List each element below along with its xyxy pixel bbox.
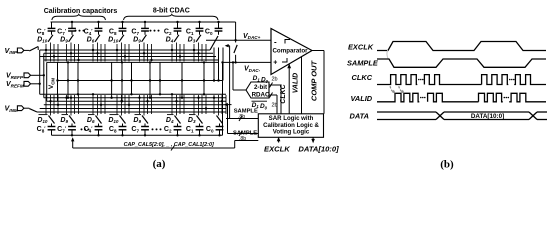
svg-text:(b): (b) <box>440 159 454 171</box>
capacitor C8' (top array) <box>37 22 56 36</box>
svg-text:2b: 2b <box>272 76 278 82</box>
ref-select ticks under C7' (top) <box>67 43 80 62</box>
capacitor C7' (top array) <box>57 22 76 36</box>
svg-text:DATA[10:0]: DATA[10:0] <box>298 144 339 153</box>
capacitor C0 (top array) <box>205 22 223 36</box>
dots between C7 and C2 (top) <box>150 30 152 32</box>
ref-select ticks above C8 (bottom) <box>117 95 130 116</box>
wire: mid vertical links <box>68 48 223 102</box>
arrows: CLKC to VALID (gray dashed) <box>390 86 404 93</box>
ref-select ticks above C0 (bottom) <box>213 95 226 116</box>
svg-text:,8b: ,8b <box>238 114 245 120</box>
svg-text:Comparator: Comparator <box>272 47 308 54</box>
svg-text:VALID: VALID <box>292 73 299 93</box>
wire: VREFP vertical rail <box>43 53 45 97</box>
capacitor C8' (bottom array) <box>37 124 56 136</box>
wire CLKC <box>288 64 290 114</box>
svg-text:VALID: VALID <box>351 94 373 103</box>
faint clock-crossing mark <box>387 50 388 59</box>
capacitor C2 (top array) <box>164 22 182 36</box>
switch D9 for C7' (top) <box>60 35 73 44</box>
switch D9 for C7 (top) <box>133 35 146 44</box>
svg-text:SAMPLE: SAMPLE <box>347 59 379 68</box>
switch D6 for C4' (top) <box>87 35 100 44</box>
svg-text:RDAC: RDAC <box>252 91 270 98</box>
wire VDAC- <box>223 61 272 63</box>
capacitor C8 (top array) <box>109 22 127 36</box>
junction dots on grid <box>67 61 220 102</box>
capacitor C7 (bottom array) <box>131 124 149 136</box>
ref-select ticks under C7 (top) <box>140 43 153 62</box>
switch D9bar for C7 (bottom) <box>133 115 148 125</box>
wire VDAC+ <box>206 39 271 41</box>
wire: SAMPLE,8b (upper) <box>226 109 258 121</box>
ref-select ticks above C8' (bottom) <box>46 95 59 116</box>
wire: C0 switch to rail end <box>210 36 218 50</box>
wire: RDAC to VDAC- <box>233 62 246 90</box>
svg-text:COMP OUT: COMP OUT <box>310 60 319 102</box>
ref-select ticks under C2 (top) <box>171 43 184 62</box>
ref-select ticks above C7' (bottom) <box>65 95 78 116</box>
switch D6bar for C4' (bottom) <box>87 115 102 125</box>
wire: left loop vertical <box>46 62 48 101</box>
ref-select ticks under C1 (top) <box>193 43 206 62</box>
svg-text:+: + <box>273 59 277 66</box>
ref-select ticks above C1 (bottom) <box>194 95 207 116</box>
wire: VREFM vertical rail <box>39 50 41 94</box>
pin VINP <box>5 46 30 55</box>
op-amp comparator U1 <box>271 29 312 75</box>
ref-select ticks above C7 (bottom) <box>138 95 151 116</box>
svg-text:-: - <box>274 37 277 46</box>
svg-text:2b: 2b <box>272 103 278 109</box>
SAR logic block <box>258 114 323 138</box>
wire: VDAC- riser <box>222 62 224 135</box>
wire: bottom-plate bus to VDAC- <box>52 134 223 136</box>
capacitor C1 (bottom array) <box>186 124 204 136</box>
arrow: DATA[10:0] output <box>311 137 315 143</box>
capacitor C4' (bottom array) <box>84 124 103 136</box>
switch: VDAC shorting sample switch <box>234 40 237 62</box>
capacitor C7' (bottom array) <box>57 124 76 136</box>
switch D3bar for C1 (bottom) <box>188 115 203 125</box>
waveform CLKC <box>377 75 417 85</box>
wire: top reference rails <box>40 50 219 62</box>
label D1bar D0bar <box>252 101 268 110</box>
wire: comparator output to COMP OUT <box>312 51 324 114</box>
DAC U2: 2-bit RDAC <box>246 82 270 98</box>
ref-select ticks under C8' (top) <box>45 43 58 62</box>
switch: VINP sampling switch <box>29 47 38 52</box>
switch D10 for C8' (top) <box>37 35 53 44</box>
pin VINM <box>5 104 30 113</box>
bus: RDAC top 2b <box>269 76 281 114</box>
arrow: EXCLK input <box>277 137 281 143</box>
svg-text:DATA: DATA <box>350 112 369 121</box>
brace over calibration capacitors <box>52 14 106 20</box>
svg-text:DATA[10:0]: DATA[10:0] <box>471 113 504 120</box>
ref-select ticks under C8 (top) <box>116 43 129 62</box>
ref-select ticks above C2 (bottom) <box>171 93 184 115</box>
pin VREFM <box>6 81 41 88</box>
waveform SAMPLE <box>377 59 546 67</box>
ref-select ticks under C4' (top) <box>92 43 105 62</box>
arrow: CAP_CAL to calibration caps <box>71 137 74 148</box>
svg-text:CAP_CAL5[2:0], _ , CAP_CAL1[2:: CAP_CAL5[2:0], _ , CAP_CAL1[2:0] <box>124 142 214 148</box>
switch D10bar for C8 (bottom) <box>108 115 125 125</box>
waveform VALID <box>377 93 419 102</box>
ref-select ticks above C4' (bottom) <box>92 93 105 115</box>
capacitor C1 (top array) <box>186 22 204 36</box>
switch D4bar for C2 (bottom) <box>166 115 181 125</box>
wire: SAMPLE,8b (lower) <box>228 130 259 142</box>
svg-text:2-bit: 2-bit <box>254 84 267 91</box>
svg-text:Calibration capacitors: Calibration capacitors <box>44 8 118 15</box>
switch D4 for C2 (top) <box>166 35 179 44</box>
capacitor C4' (top array) <box>84 22 103 36</box>
wire: CAP_CAL bus <box>73 141 259 151</box>
node VCM vertical rail <box>57 62 59 101</box>
pin VREFP <box>6 72 45 79</box>
capacitor C8 (bottom array) <box>109 124 127 136</box>
wire: top-plate bus to VDAC+ <box>51 21 236 23</box>
switch D3 for C1 (top) <box>188 35 201 44</box>
svg-text:EXCLK: EXCLK <box>348 43 374 52</box>
dots between C7p and C4p (top) <box>75 30 77 32</box>
capacitor C7 (top array) <box>131 22 149 36</box>
wire: middle distribution wire <box>57 80 223 82</box>
svg-text:(a): (a) <box>153 158 166 170</box>
switch: VINM sampling switch <box>29 109 37 112</box>
wire: sample control vertical (bottom) <box>227 105 229 134</box>
arrow: sample point top <box>225 44 230 47</box>
svg-text:CLKC: CLKC <box>352 73 373 82</box>
capacitor C0 (bottom array) <box>206 124 224 136</box>
svg-text:EXCLK: EXCLK <box>264 144 290 153</box>
switch Dbar for C0 (bottom) <box>217 116 223 124</box>
switch D10 for C8 (top) <box>108 35 124 44</box>
bus: RDAC bottom 2b <box>269 93 278 114</box>
wire VALID <box>301 57 303 114</box>
waveform EXCLK <box>377 42 546 51</box>
switch D10bar for C8' (bottom) <box>37 115 54 125</box>
arrow: sample point bottom <box>224 103 232 106</box>
svg-text:Voting Logic: Voting Logic <box>273 128 310 135</box>
dots between C7 and C2 (bottom) <box>152 128 154 130</box>
wire: bottom reference rails <box>37 94 226 112</box>
svg-text:8-bit CDAC: 8-bit CDAC <box>153 7 190 14</box>
dots between C7p and C4p (bottom) <box>81 128 83 130</box>
capacitor C2 (bottom array) <box>164 124 182 136</box>
brace over 8-bit CDAC <box>124 14 219 20</box>
wire: sample control vertical (top) <box>229 46 231 119</box>
switch D9bar for C7' (bottom) <box>60 115 75 125</box>
waveform DATA bus <box>377 112 547 120</box>
